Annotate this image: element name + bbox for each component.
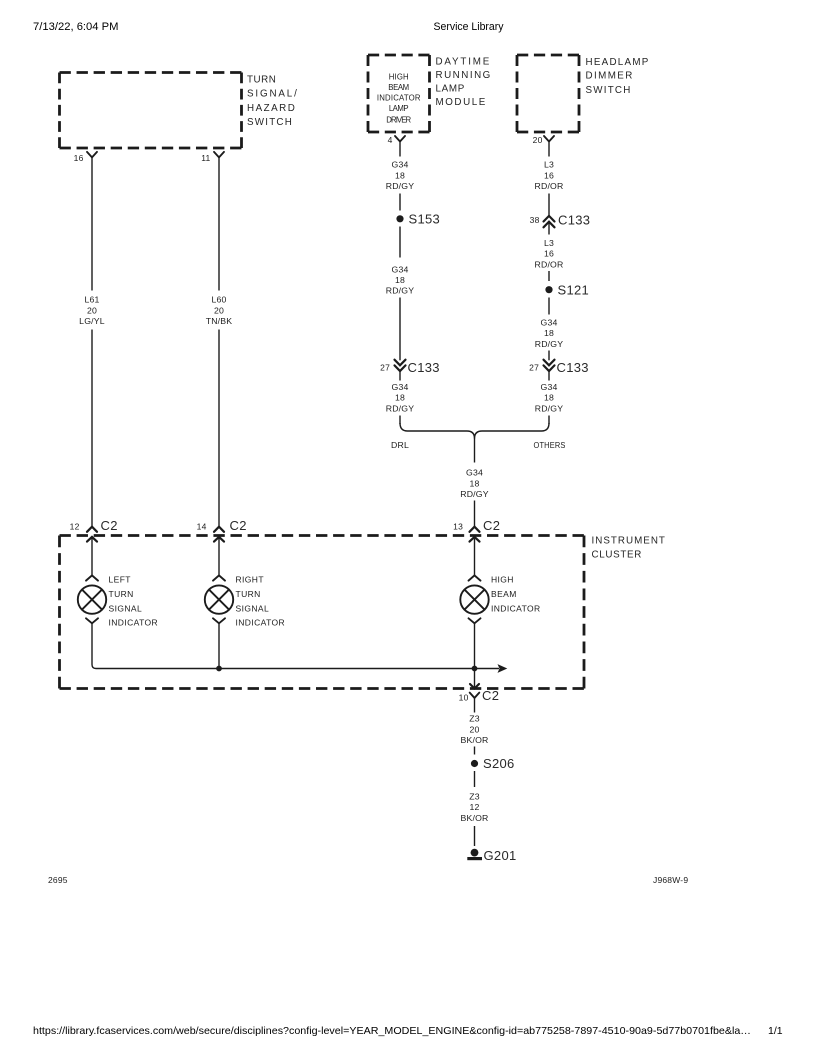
svg-text:SIGNAL/: SIGNAL/: [247, 89, 297, 100]
svg-text:HEADLAMP: HEADLAMP: [586, 57, 649, 68]
box: instrument cluster: [60, 534, 585, 537]
svg-text:J968W-9: J968W-9: [653, 875, 688, 885]
svg-text:TURN: TURN: [236, 589, 261, 599]
svg-text:12: 12: [70, 522, 80, 532]
label: turn signal/hazard switch: [247, 74, 297, 128]
svg-text:16: 16: [544, 249, 554, 259]
svg-text:BK/OR: BK/OR: [460, 813, 488, 823]
connector 38 C133: [530, 212, 591, 227]
svg-text:RUNNING: RUNNING: [436, 70, 491, 81]
wire from high beam lamp through bus to cluster exit: [474, 623, 476, 688]
svg-text:RD/OR: RD/OR: [535, 259, 564, 269]
connector C2 pin 10 below cluster: [459, 688, 500, 703]
pin 11 of turn signal switch: [214, 152, 224, 158]
wire segment: [548, 371, 550, 381]
wire G34 from pin 4: [399, 142, 401, 157]
svg-text:LG/YL: LG/YL: [79, 316, 105, 326]
svg-text:RD/GY: RD/GY: [386, 286, 415, 296]
svg-text:INDICATOR: INDICATOR: [109, 617, 159, 627]
svg-text:SIGNAL: SIGNAL: [109, 603, 143, 613]
svg-text:BEAM: BEAM: [491, 589, 517, 599]
junction at right turn lamp: [216, 666, 222, 672]
svg-text:18: 18: [544, 328, 554, 338]
svg-text:16: 16: [544, 170, 554, 180]
label inside: high beam indicator lamp driver: [377, 73, 421, 125]
wire segment: [548, 351, 550, 361]
svg-text:DRL: DRL: [391, 440, 409, 450]
wire segment: [474, 771, 476, 787]
wire segment to merge: [548, 416, 550, 425]
svg-text:20: 20: [533, 135, 543, 145]
svg-text:RD/GY: RD/GY: [535, 403, 564, 413]
connector 27 C133 (left): [380, 360, 440, 376]
connector C2 pin 13: [453, 518, 500, 541]
connector box: daytime running lamp module: [368, 54, 430, 57]
svg-text:C133: C133: [408, 360, 440, 375]
wire segment: [548, 298, 550, 315]
svg-text:18: 18: [395, 275, 405, 285]
ground G201: [467, 848, 516, 863]
wire label G34 18 RD/GY: [460, 468, 489, 499]
merge junction DRL / OTHERS: [400, 423, 549, 439]
junction at high beam lamp: [472, 666, 478, 672]
svg-text:INDICATOR: INDICATOR: [236, 617, 286, 627]
wire label L3 16 RD/OR: [535, 238, 564, 269]
svg-text:C133: C133: [557, 360, 589, 375]
svg-text:C2: C2: [230, 518, 247, 533]
svg-text:S206: S206: [483, 756, 515, 771]
svg-text:HIGH: HIGH: [389, 73, 409, 82]
svg-text:HIGH: HIGH: [491, 575, 514, 585]
svg-text:18: 18: [395, 393, 405, 403]
svg-text:Service Library: Service Library: [434, 21, 504, 33]
label: right turn signal indicator: [236, 575, 286, 628]
wire segment: [399, 371, 401, 381]
svg-text:13: 13: [453, 522, 463, 532]
svg-text:SIGNAL: SIGNAL: [236, 603, 270, 613]
svg-text:L60: L60: [211, 295, 226, 305]
svg-text:INDICATOR: INDICATOR: [491, 603, 541, 613]
svg-text:S121: S121: [558, 282, 590, 297]
svg-text:20: 20: [214, 305, 224, 315]
svg-text:38: 38: [530, 215, 540, 225]
connector 27 C133 (right): [529, 360, 589, 376]
svg-text:4: 4: [388, 135, 393, 145]
wire segment into cluster: [474, 501, 476, 527]
svg-text:Z3: Z3: [469, 714, 480, 724]
connector box: turn signal / hazard switch: [60, 71, 242, 74]
svg-text:RD/GY: RD/GY: [535, 339, 564, 349]
lamp: high beam indicator: [460, 575, 488, 623]
svg-text:RIGHT: RIGHT: [236, 575, 264, 585]
svg-text:BEAM: BEAM: [388, 83, 409, 92]
wire label Z3 12 BK/OR: [460, 791, 488, 822]
svg-text:L3: L3: [544, 160, 554, 170]
svg-text:G34: G34: [391, 264, 408, 274]
wire label G34 18 RD/GY: [535, 382, 564, 413]
svg-text:7/13/22, 6:04 PM: 7/13/22, 6:04 PM: [33, 21, 119, 33]
svg-text:INDICATOR: INDICATOR: [377, 94, 421, 103]
wire L60 lower segment: [218, 330, 220, 527]
ground bus inside cluster: [96, 668, 499, 670]
label: high beam indicator: [491, 575, 541, 614]
svg-text:https://library.fcaservices.co: https://library.fcaservices.com/web/secu…: [33, 1025, 751, 1037]
splice S206: [471, 760, 478, 767]
svg-text:G34: G34: [391, 160, 408, 170]
lamp: right turn signal indicator: [205, 575, 233, 623]
svg-text:C2: C2: [483, 518, 500, 533]
svg-text:CLUSTER: CLUSTER: [592, 549, 642, 560]
svg-text:DIMMER: DIMMER: [586, 71, 633, 82]
wire label L60 20 TN/BK: [206, 295, 233, 326]
wire label Z3 20 BK/OR: [460, 714, 488, 745]
wire segment: [548, 271, 550, 281]
connector C2 pin 14: [197, 518, 247, 541]
wire label G34 18 RD/GY: [386, 160, 415, 191]
wire segment: [399, 298, 401, 361]
connector C2 pin 12: [70, 518, 118, 541]
wire segment: [548, 222, 550, 235]
wire segment: [399, 194, 401, 211]
svg-text:G34: G34: [540, 382, 557, 392]
pin 20 of headlamp dimmer switch: [544, 136, 554, 142]
wire segment to ground: [474, 826, 476, 846]
svg-text:G201: G201: [484, 848, 517, 863]
connector box: headlamp dimmer switch: [517, 54, 579, 57]
svg-text:LEFT: LEFT: [109, 575, 131, 585]
svg-text:L3: L3: [544, 238, 554, 248]
pin 16 of turn signal switch: [87, 152, 97, 158]
svg-text:20: 20: [87, 305, 97, 315]
svg-text:2695: 2695: [48, 875, 68, 885]
wire segment: [548, 194, 550, 216]
svg-text:G34: G34: [391, 382, 408, 392]
svg-text:TN/BK: TN/BK: [206, 316, 233, 326]
svg-text:G34: G34: [466, 468, 483, 478]
svg-text:11: 11: [201, 153, 210, 163]
bus arrow: [498, 664, 508, 673]
wire from lamp to bus: [218, 623, 220, 668]
svg-text:TURN: TURN: [247, 74, 276, 85]
svg-text:S153: S153: [409, 212, 441, 227]
label: left turn signal indicator: [109, 575, 159, 628]
svg-text:18: 18: [469, 478, 479, 488]
svg-text:BK/OR: BK/OR: [460, 735, 488, 745]
svg-text:INSTRUMENT: INSTRUMENT: [592, 535, 666, 546]
svg-text:HAZARD: HAZARD: [247, 103, 295, 114]
svg-text:RD/GY: RD/GY: [386, 403, 415, 413]
svg-text:LAMP: LAMP: [389, 104, 409, 113]
wire segment to merge: [399, 416, 401, 425]
svg-text:16: 16: [74, 153, 84, 163]
wire label G34 18 RD/GY: [386, 382, 415, 413]
svg-text:MODULE: MODULE: [436, 97, 486, 108]
wire segment: [474, 747, 476, 755]
svg-text:OTHERS: OTHERS: [534, 440, 566, 450]
wire label G34 18 RD/GY: [535, 317, 564, 348]
svg-text:1/1: 1/1: [768, 1025, 783, 1037]
label: instrument cluster: [592, 535, 666, 560]
svg-text:DRIVER: DRIVER: [386, 116, 411, 125]
wire label L3 16 RD/OR: [535, 160, 564, 191]
wire label G34 18 RD/GY: [386, 264, 415, 295]
svg-text:14: 14: [197, 522, 207, 532]
wire label L61 20 LG/YL: [79, 295, 105, 326]
svg-text:12: 12: [469, 802, 479, 812]
wire segment: [474, 698, 476, 713]
wire from lamp to bus: [92, 623, 96, 668]
svg-text:C2: C2: [101, 518, 118, 533]
svg-text:18: 18: [395, 170, 405, 180]
svg-text:C133: C133: [558, 212, 590, 227]
svg-text:Z3: Z3: [469, 791, 480, 801]
lamp: left turn signal indicator: [78, 575, 106, 623]
wire segment: [399, 227, 401, 258]
svg-text:10: 10: [459, 693, 469, 703]
svg-text:27: 27: [380, 363, 390, 373]
label: daytime running lamp module: [436, 57, 491, 109]
svg-text:L61: L61: [84, 295, 99, 305]
svg-text:RD/GY: RD/GY: [460, 489, 489, 499]
pin 4 of DRL module: [395, 136, 405, 142]
svg-text:RD/OR: RD/OR: [535, 181, 564, 191]
wire L3 from pin 20: [548, 142, 550, 157]
label: headlamp dimmer switch: [586, 57, 649, 96]
svg-text:RD/GY: RD/GY: [386, 181, 415, 191]
svg-text:27: 27: [529, 363, 539, 373]
svg-text:G34: G34: [540, 317, 557, 327]
wire L60 upper segment: [218, 157, 220, 290]
connector C2 exit feet: [470, 684, 479, 689]
svg-text:18: 18: [544, 393, 554, 403]
wire L61 upper segment: [91, 157, 93, 290]
svg-text:C2: C2: [482, 688, 499, 703]
wire L61 lower segment: [91, 330, 93, 527]
splice S153: [396, 215, 403, 222]
merged wire: [474, 439, 476, 463]
svg-text:TURN: TURN: [109, 589, 134, 599]
svg-text:LAMP: LAMP: [436, 84, 465, 95]
splice S121: [545, 286, 552, 293]
svg-text:20: 20: [469, 724, 479, 734]
